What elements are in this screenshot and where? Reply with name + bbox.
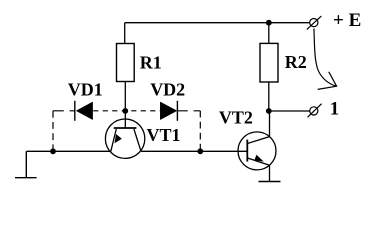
transistor VT1 [105, 111, 144, 158]
terminal 1 [308, 104, 322, 118]
arrow: output direction indicator [314, 29, 337, 90]
node: right dashed drop junction [197, 148, 203, 154]
wire: dashed link center [93, 110, 160, 112]
resistor R2 [260, 43, 278, 82]
ground (VT2 emitter) [259, 181, 281, 183]
wire: R2 bottom lead [268, 82, 270, 111]
svg-text:R2: R2 [285, 52, 307, 72]
node: R2 top junction [266, 20, 272, 26]
wire: dashed link right corner [177, 110, 200, 112]
transistor VT2 [238, 132, 276, 170]
terminal +E [307, 16, 322, 29]
node: output junction [266, 108, 272, 114]
wire: dashed drop right [199, 111, 201, 152]
svg-text:R1: R1 [140, 53, 162, 73]
wire: R1 bottom lead [124, 82, 126, 111]
diode VD1 [75, 101, 93, 121]
svg-text:VT1: VT1 [147, 125, 181, 145]
svg-text:+ E: + E [333, 10, 361, 31]
wire: dashed link left corner [53, 110, 75, 112]
wire: VT2 emitter lead [269, 165, 271, 181]
wire: dashed drop left [52, 111, 54, 152]
ground (left) [15, 151, 37, 177]
svg-text:1: 1 [330, 98, 340, 119]
wire: output lead [269, 110, 310, 112]
node: diode/base junction [122, 108, 128, 114]
svg-text:VT2: VT2 [219, 107, 253, 127]
wire: VT2 collector lead [269, 111, 271, 137]
node: left dashed drop junction [50, 148, 56, 154]
svg-text:VD1: VD1 [68, 80, 103, 100]
wire: top +E rail [125, 22, 310, 24]
wire: R1 top lead [124, 23, 126, 44]
diode VD2 [160, 101, 177, 121]
wire: ground rail right segment [141, 150, 247, 152]
resistor R1 [117, 44, 135, 82]
wire: R2 top lead [268, 23, 270, 44]
svg-text:VD2: VD2 [150, 80, 185, 100]
wire: ground rail left segment [26, 150, 111, 152]
